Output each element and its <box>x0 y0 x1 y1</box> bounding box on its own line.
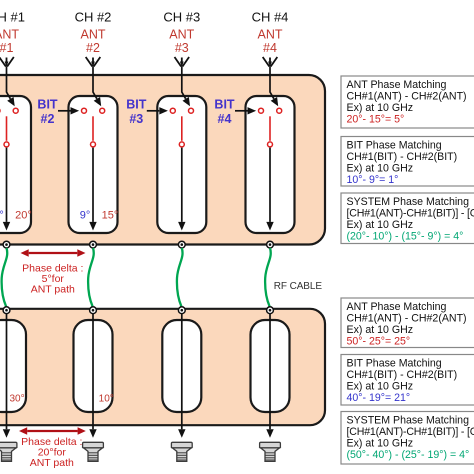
svg-text:CH #2: CH #2 <box>75 10 112 25</box>
phase shifter capsule CH4 (bottom) <box>251 320 290 412</box>
svg-text:Ex) at 10 GHz: Ex) at 10 GHz <box>347 324 414 336</box>
svg-text:ANT path: ANT path <box>31 283 75 295</box>
svg-text:20°- 15°= 5°: 20°- 15°= 5° <box>347 114 405 126</box>
BIT feed arrow CH2 <box>58 110 71 112</box>
input connector node CH1 (bottom module) <box>3 307 10 314</box>
svg-text:ANT Phase Matching: ANT Phase Matching <box>347 79 447 91</box>
switch pole CH2 <box>91 142 96 147</box>
svg-text:CH #4: CH #4 <box>252 10 289 25</box>
svg-text:BIT Phase Matching: BIT Phase Matching <box>347 358 442 370</box>
switch pole CH1 <box>4 142 9 147</box>
info box: BIT phase matching (system) <box>341 355 474 406</box>
svg-text:BIT Phase Matching: BIT Phase Matching <box>347 140 442 152</box>
svg-text:30°: 30° <box>9 393 24 404</box>
RF output connector CH4 (bolt) <box>260 442 281 461</box>
switch arm CH2 <box>92 116 94 141</box>
svg-text:BIT: BIT <box>37 98 58 112</box>
svg-text:10°- 9°= 1°: 10°- 9°= 1° <box>347 174 399 186</box>
input connector node CH4 (bottom module) <box>267 307 274 314</box>
BIT feed arrow CH3 <box>147 110 160 112</box>
ANT feed arrowhead CH3 <box>183 97 191 106</box>
svg-text:Ex) at 10 GHz: Ex) at 10 GHz <box>347 219 414 231</box>
info box: BIT phase matching (module) <box>341 137 474 187</box>
through wire CH1 (bottom module) <box>6 313 8 429</box>
switch contact (BIT side) CH4 <box>259 108 264 113</box>
phase shifter box CH3 (top) <box>157 96 206 233</box>
svg-text:CH #3: CH #3 <box>163 10 200 25</box>
RF output connector CH1 (bolt) <box>0 442 17 461</box>
antenna symbol CH3 <box>175 57 190 67</box>
svg-text:Ex) at 10 GHz: Ex) at 10 GHz <box>347 102 414 114</box>
ANT feed arrowhead CH1 <box>7 97 15 106</box>
svg-text:CH#1(BIT) - CH#2(BIT): CH#1(BIT) - CH#2(BIT) <box>347 369 458 381</box>
switch contact (ANT side) CH1 <box>13 108 18 113</box>
input connector node CH2 (bottom module) <box>90 307 97 314</box>
antenna symbol CH1 <box>0 57 14 67</box>
svg-text:Ex) at 10 GHz: Ex) at 10 GHz <box>347 438 414 450</box>
svg-text:50°- 25°= 25°: 50°- 25°= 25° <box>347 336 411 348</box>
ANT feed arrowhead CH4 <box>271 97 279 106</box>
RF cable CH2 <box>88 248 94 306</box>
switch arm CH4 <box>269 116 271 141</box>
svg-text:CH#1(ANT) - CH#2(ANT): CH#1(ANT) - CH#2(ANT) <box>347 313 467 325</box>
switch contact (BIT side) CH2 <box>82 108 87 113</box>
output connector node CH2 (top module) <box>90 241 97 248</box>
info box: SYSTEM phase matching (system) <box>341 412 474 465</box>
svg-text:ANT: ANT <box>258 28 283 42</box>
phase shifter capsule CH3 (bottom) <box>162 320 201 412</box>
output connector node CH1 (top module) <box>3 241 10 248</box>
antenna symbol CH2 <box>86 57 101 67</box>
switch contact (ANT side) CH2 <box>100 108 105 113</box>
svg-text:#4: #4 <box>218 112 232 126</box>
svg-text:ANT: ANT <box>0 28 19 42</box>
RF output connector CH2 (bolt) <box>83 442 104 461</box>
ANT feed wire CH4 <box>270 67 274 99</box>
svg-text:Ex) at 10 GHz: Ex) at 10 GHz <box>347 381 414 393</box>
input connector node CH3 (bottom module) <box>178 307 185 314</box>
BIT feed arrow CH4 <box>235 110 248 112</box>
switch pole CH3 <box>179 142 184 147</box>
svg-text:CH #1: CH #1 <box>0 10 25 25</box>
info box: ANT phase matching (system) <box>341 298 474 348</box>
svg-text:#4: #4 <box>263 41 277 55</box>
svg-text:ANT: ANT <box>169 28 194 42</box>
info box: ANT phase matching (module) <box>341 76 474 128</box>
output connector node CH3 (top module) <box>178 241 185 248</box>
phase shifter box CH2 (top) <box>69 96 118 233</box>
phase delta annotation (ANT path, top) double arrow <box>21 249 86 257</box>
svg-text:10°: 10° <box>99 393 114 404</box>
output connector node CH4 (top module) <box>267 241 274 248</box>
RF cable CH3 <box>177 248 183 306</box>
through wire CH3 (bottom module) <box>181 313 183 429</box>
RF cable CH1 <box>2 248 8 306</box>
RF cable CH4 <box>265 248 271 306</box>
output wire CH3 (top box) <box>181 148 183 222</box>
ANT feed wire CH3 <box>182 67 186 99</box>
phase delta annotation (ANT path, bottom) double arrow <box>19 427 86 435</box>
svg-text:SYSTEM Phase Matching: SYSTEM Phase Matching <box>347 196 470 208</box>
switch contact (ANT side) CH3 <box>189 108 194 113</box>
phase shifter capsule CH1 (bottom) <box>0 320 26 412</box>
switch contact (BIT side) CH3 <box>170 108 175 113</box>
svg-text:CH#1(ANT) - CH#2(ANT): CH#1(ANT) - CH#2(ANT) <box>347 91 467 103</box>
svg-text:ANT: ANT <box>81 28 106 42</box>
phase shifter capsule CH2 (bottom) <box>74 320 113 412</box>
svg-text:(20°- 10°) - (15°- 9°) = 4°: (20°- 10°) - (15°- 9°) = 4° <box>347 231 464 243</box>
ANT feed wire CH1 <box>7 67 11 99</box>
svg-text:(50°- 40°) - (25°- 19°) = 4°: (50°- 40°) - (25°- 19°) = 4° <box>347 449 470 461</box>
svg-text:Ex) at 10 GHz: Ex) at 10 GHz <box>347 163 414 175</box>
switch pole CH4 <box>268 142 273 147</box>
svg-text:RF CABLE: RF CABLE <box>274 281 323 292</box>
antenna symbol CH4 <box>263 57 278 67</box>
svg-text:BIT: BIT <box>214 98 235 112</box>
svg-text:20°: 20° <box>15 210 32 222</box>
svg-text:#3: #3 <box>129 112 143 126</box>
info box: SYSTEM phase matching (module) <box>341 193 474 244</box>
phase shifter box CH4 (top) <box>246 96 295 233</box>
bottom module housing (receiver) <box>0 309 325 425</box>
output wire CH2 (top box) <box>92 148 94 222</box>
svg-text:#3: #3 <box>175 41 189 55</box>
through wire CH2 (bottom module) <box>92 313 94 429</box>
svg-text:CH#1(BIT) - CH#2(BIT): CH#1(BIT) - CH#2(BIT) <box>347 151 458 163</box>
top module housing (antenna front-end) <box>0 75 325 245</box>
svg-text:40°- 19°= 21°: 40°- 19°= 21° <box>347 392 411 404</box>
svg-text:#2: #2 <box>86 41 100 55</box>
svg-text:[CH#1(ANT)-CH#1(BIT)] - [CH#2(: [CH#1(ANT)-CH#1(BIT)] - [CH#2(ANT)-CH#2(… <box>347 208 474 220</box>
svg-text:#2: #2 <box>41 112 55 126</box>
svg-text:SYSTEM Phase Matching: SYSTEM Phase Matching <box>347 415 470 427</box>
switch arm CH1 <box>6 116 8 141</box>
switch contact (ANT side) CH4 <box>277 108 282 113</box>
svg-text:9°: 9° <box>80 210 91 222</box>
ANT feed wire CH2 <box>93 67 97 99</box>
svg-text:ANT Phase Matching: ANT Phase Matching <box>347 301 447 313</box>
switch arm CH3 <box>181 116 183 141</box>
svg-text:[CH#1(ANT)-CH#1(BIT)] - [CH#2(: [CH#1(ANT)-CH#1(BIT)] - [CH#2(ANT)-CH#2(… <box>347 426 474 438</box>
svg-text:BIT: BIT <box>126 98 147 112</box>
svg-text:ANT path: ANT path <box>30 457 74 469</box>
svg-text:#1: #1 <box>0 41 13 55</box>
svg-text:10°: 10° <box>0 210 4 222</box>
output wire CH1 (top box) <box>6 148 8 222</box>
ANT feed arrowhead CH2 <box>94 97 102 106</box>
svg-text:15°: 15° <box>102 210 119 222</box>
through wire CH4 (bottom module) <box>269 313 271 429</box>
output wire CH4 (top box) <box>269 148 271 222</box>
RF output connector CH3 (bolt) <box>171 442 192 461</box>
phase shifter box CH1 (top) <box>0 96 31 233</box>
